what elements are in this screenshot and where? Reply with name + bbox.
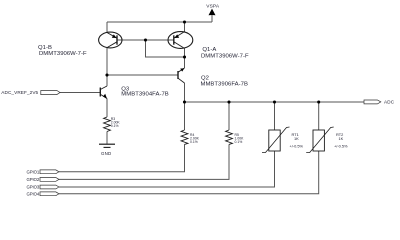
svg-text:+/-0.5%: +/-0.5%: [290, 143, 304, 148]
svg-text:0.1%: 0.1%: [111, 124, 119, 128]
svg-text:1K: 1K: [339, 136, 344, 141]
svg-text:GPIO1: GPIO1: [27, 169, 40, 174]
svg-text:GND: GND: [101, 151, 111, 156]
svg-text:1K: 1K: [294, 136, 299, 141]
svg-text:ADC_VREF_2V5: ADC_VREF_2V5: [1, 90, 38, 95]
svg-text:DMMT3906W-7-F: DMMT3906W-7-F: [201, 53, 249, 59]
svg-text:DMMT3906W-7-F: DMMT3906W-7-F: [39, 51, 87, 57]
svg-text:Q2: Q2: [201, 75, 209, 81]
svg-text:GPIO4: GPIO4: [27, 191, 40, 196]
svg-text:GPIO2: GPIO2: [27, 177, 40, 182]
svg-text:Q1-A: Q1-A: [202, 47, 216, 53]
svg-text:ADC: ADC: [384, 100, 395, 105]
svg-text:VSPA: VSPA: [206, 3, 220, 9]
svg-text:MMBT3904FA-7B: MMBT3904FA-7B: [121, 92, 168, 98]
svg-text:0.1%: 0.1%: [190, 140, 198, 144]
svg-text:MMBT3906FA-7B: MMBT3906FA-7B: [201, 82, 248, 88]
svg-text:+/-0.5%: +/-0.5%: [334, 143, 348, 148]
svg-text:0.1%: 0.1%: [235, 140, 243, 144]
svg-text:GPIO3: GPIO3: [27, 185, 40, 190]
